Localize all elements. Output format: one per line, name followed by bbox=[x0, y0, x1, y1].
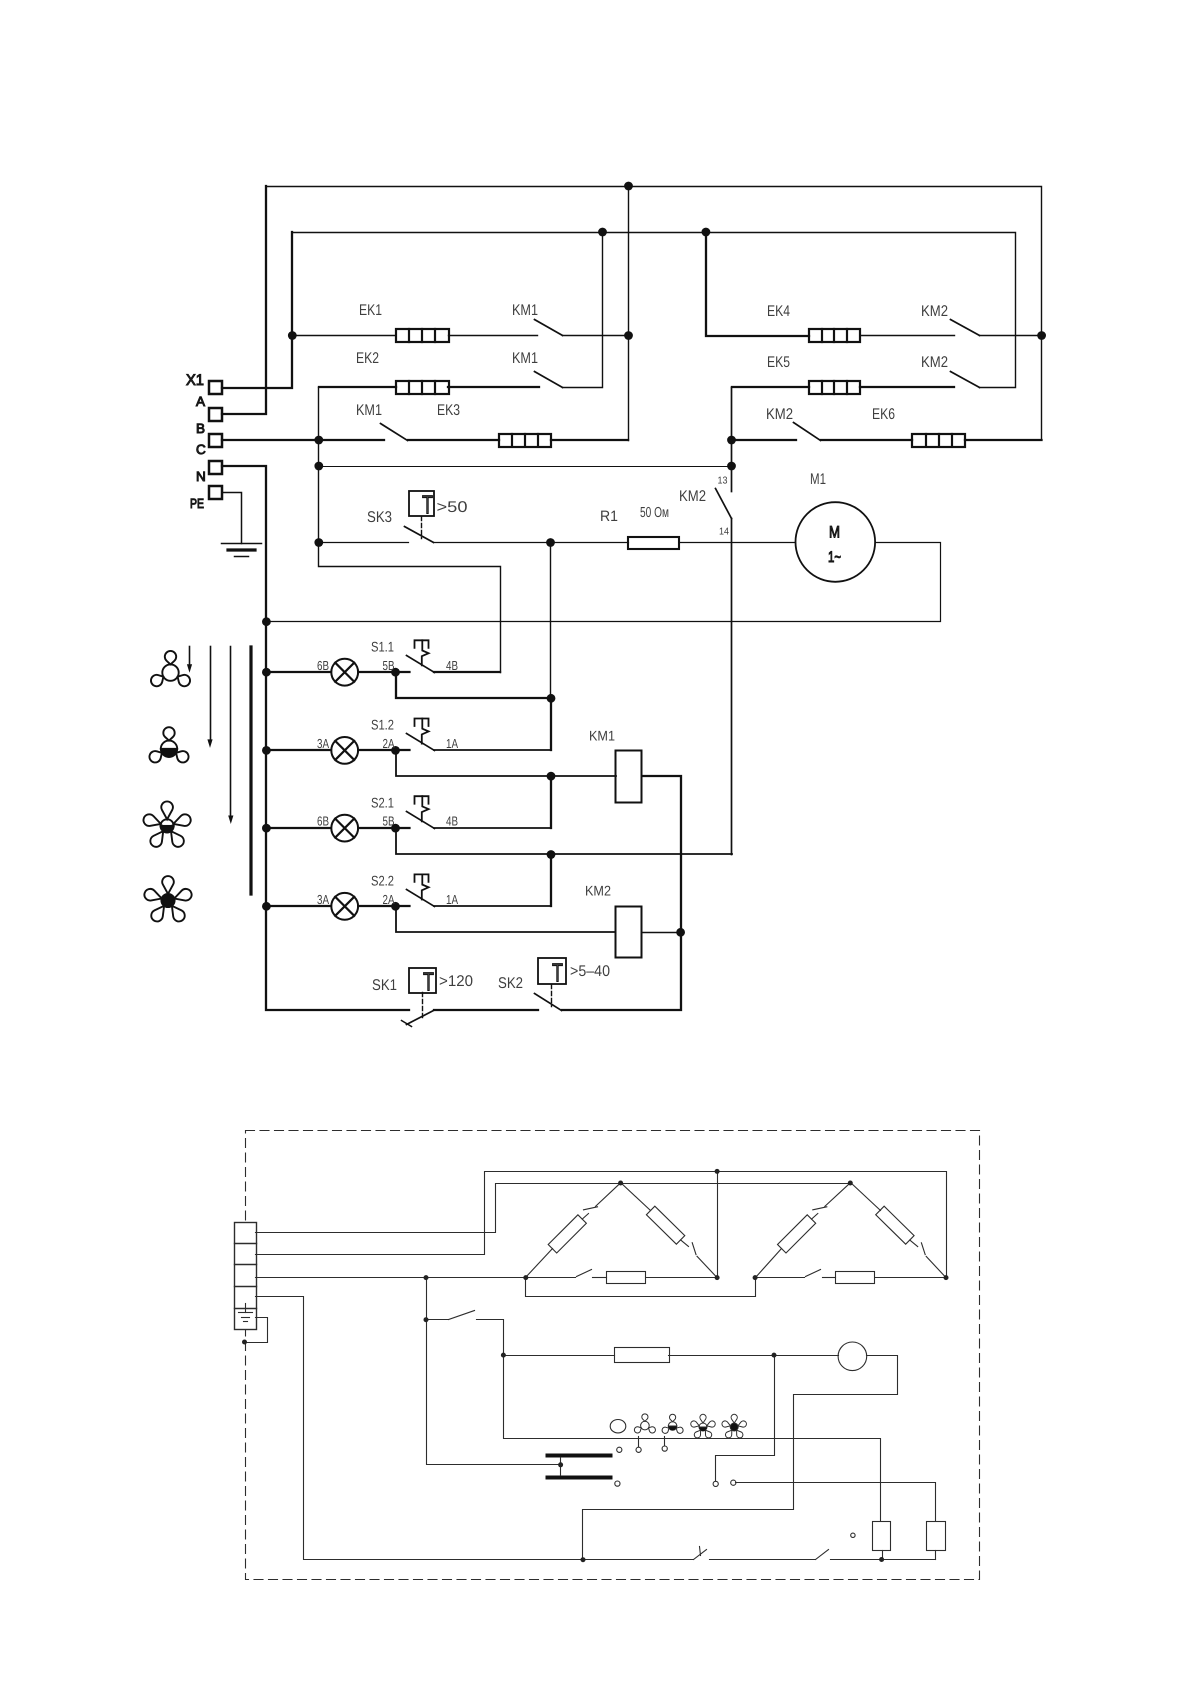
node coil KM2 right bbox=[676, 928, 685, 937]
wire S2.2 bypass to coil KM2 bbox=[396, 906, 615, 932]
node phase3 branch bbox=[424, 1275, 429, 1280]
junction dots bottom figure bbox=[242, 1169, 949, 1562]
svg-text:M1: M1 bbox=[810, 471, 826, 488]
heater EK1 bbox=[396, 329, 449, 342]
wire riser x551 to S1.2 bbox=[550, 698, 552, 750]
wire EK5 to KM2 bbox=[860, 386, 954, 388]
node N/motor return bbox=[262, 617, 271, 626]
svg-text:C: C bbox=[196, 442, 206, 457]
svg-text:13: 13 bbox=[718, 476, 728, 487]
wire S2.1 bypass bbox=[396, 828, 732, 854]
wire PE hook bbox=[245, 1318, 268, 1343]
svg-text:T: T bbox=[422, 490, 433, 520]
node SK3 left bbox=[314, 538, 323, 547]
svg-text:KM1: KM1 bbox=[512, 302, 538, 319]
svg-text:T: T bbox=[552, 958, 563, 988]
svg-text:1А: 1А bbox=[446, 736, 458, 751]
contact KM1 (C row) bbox=[381, 424, 408, 441]
thermal switch SK2 bbox=[535, 958, 567, 1011]
wire bottom row mid (bottom fig) bbox=[710, 1559, 816, 1561]
node C row bbox=[314, 436, 323, 445]
terminal X1:N bbox=[196, 461, 222, 484]
svg-text:SK1: SK1 bbox=[372, 977, 397, 994]
node bypass2 bbox=[547, 772, 556, 781]
svg-text:5В: 5В bbox=[383, 658, 395, 673]
wire B lead up bbox=[222, 186, 266, 414]
delta1 right side upper bbox=[621, 1183, 651, 1211]
svg-text:KM2: KM2 bbox=[766, 406, 793, 423]
pin switch 2 bbox=[851, 1533, 855, 1537]
switch bottom 2 bbox=[816, 1550, 829, 1560]
fan A (bottom fig, 3-blade open) bbox=[634, 1414, 655, 1433]
svg-text:SK2: SK2 bbox=[498, 975, 523, 992]
node delta1 apex bbox=[618, 1181, 623, 1186]
node bottom row motor return bbox=[581, 1557, 586, 1562]
wire R1 to motor bbox=[680, 542, 796, 544]
motor M1 bbox=[796, 502, 876, 582]
wire riser x551 to S2.2 bbox=[550, 854, 552, 906]
resistor vertical 2 bbox=[927, 1522, 946, 1560]
svg-text:EK1: EK1 bbox=[359, 302, 382, 319]
wire branch to pin A bbox=[716, 1356, 775, 1482]
delta2 right side upper bbox=[851, 1183, 881, 1211]
switch S2.2 bbox=[407, 874, 435, 906]
wire EK5 row left bbox=[732, 386, 809, 388]
svg-text:50 Ом: 50 Ом bbox=[640, 505, 669, 521]
pin lamp bbox=[617, 1447, 622, 1452]
wire EK1 to KM1 bbox=[449, 335, 538, 337]
wire EK4 feed riser bbox=[706, 232, 809, 336]
wire riser x551 upper bbox=[550, 543, 552, 699]
switch S1.2 bbox=[407, 719, 435, 751]
svg-text:4В: 4В bbox=[446, 658, 458, 673]
contact SK3 bbox=[405, 527, 434, 543]
wire motor return (bottom fig) bbox=[583, 1356, 898, 1560]
pin fan A bbox=[636, 1447, 641, 1452]
svg-text:KM1: KM1 bbox=[512, 350, 538, 367]
wire phase 2 bbox=[256, 1172, 947, 1278]
contact KM1 (EK2 row) bbox=[535, 372, 563, 388]
node N/HL2 bbox=[262, 746, 271, 755]
contact KM2 13-14 bbox=[716, 489, 732, 855]
node delta1 right corner bbox=[715, 1275, 720, 1280]
pin A bbox=[713, 1481, 718, 1486]
delta2 base + switch bbox=[756, 1270, 947, 1284]
svg-text:6В: 6В bbox=[317, 814, 329, 829]
node delta2 apex bbox=[848, 1181, 853, 1186]
fan icon 2 (3-blade, half hub) bbox=[149, 727, 188, 762]
svg-text:N: N bbox=[196, 469, 206, 484]
svg-text:B: B bbox=[196, 421, 205, 436]
svg-text:T: T bbox=[423, 967, 434, 997]
pin B bbox=[731, 1480, 736, 1485]
svg-text:A: A bbox=[196, 394, 205, 409]
svg-text:EK5: EK5 bbox=[767, 354, 790, 371]
wire PE lead bbox=[223, 493, 242, 544]
wire EK2 to KM1 bbox=[448, 386, 539, 388]
delta1 left side lower bbox=[526, 1249, 553, 1278]
wire top bus L1 bbox=[267, 187, 1042, 441]
wire S1.2 right bbox=[434, 749, 551, 751]
delta1 left side upper + switch bbox=[582, 1183, 620, 1219]
heater EK6 bbox=[912, 434, 965, 447]
wire EK1 row left bbox=[293, 335, 396, 337]
heater bar 2 bbox=[546, 1476, 613, 1480]
svg-text:>50: >50 bbox=[437, 499, 468, 516]
pin bar bbox=[615, 1481, 620, 1486]
contact KM2 (EK5 row) bbox=[951, 372, 980, 388]
wire S1.1 bypass bbox=[396, 672, 551, 698]
wire EK5/EK6 left riser bbox=[731, 388, 733, 492]
fan D (bottom fig, 5-blade full) bbox=[722, 1414, 746, 1438]
wire SK3 row left bbox=[319, 542, 409, 544]
svg-text:KM2: KM2 bbox=[585, 883, 611, 899]
heater EK5 bbox=[809, 381, 860, 394]
resistor vertical 1 bbox=[873, 1522, 891, 1560]
svg-text:S1.1: S1.1 bbox=[371, 639, 394, 655]
svg-text:KM1: KM1 bbox=[589, 728, 615, 744]
svg-text:EK4: EK4 bbox=[767, 303, 790, 320]
fan icon 3 (5-blade, half hub) bbox=[144, 801, 191, 846]
svg-text:2А: 2А bbox=[383, 736, 395, 751]
wire phase 3 bbox=[256, 1277, 526, 1279]
node HL3 right bbox=[391, 824, 400, 833]
delta2 left side upper + switch bbox=[812, 1183, 851, 1219]
wire EK4 to KM2 bbox=[861, 335, 955, 337]
svg-text:>5–40: >5–40 bbox=[570, 963, 610, 980]
resistor delta2 right bbox=[876, 1206, 914, 1244]
svg-text:EK2: EK2 bbox=[356, 350, 379, 367]
terminal X1:B bbox=[196, 408, 222, 436]
terminal X1:C bbox=[196, 434, 222, 457]
node delta2 left corner bbox=[753, 1275, 758, 1280]
node delta1 left corner bbox=[523, 1275, 528, 1280]
node N/HL3 bbox=[262, 824, 271, 833]
wire motor return loop bbox=[267, 543, 941, 622]
terminal block (bottom fig) bbox=[235, 1223, 257, 1330]
coil KM2 bbox=[616, 907, 642, 958]
resistor delta2 left bbox=[778, 1215, 816, 1253]
motor (bottom fig) bbox=[838, 1342, 867, 1371]
wire C row to EK3 bbox=[408, 439, 499, 441]
node EK1 left bbox=[288, 331, 297, 340]
node bypass3 bbox=[547, 850, 556, 859]
node EK6 left bbox=[727, 436, 736, 445]
coil KM1 bbox=[616, 751, 642, 803]
node EK4 right bbox=[1037, 331, 1046, 340]
wire coil KM2 right bbox=[642, 932, 681, 934]
ground (bottom fig) bbox=[239, 1304, 253, 1322]
node line1/riser bbox=[715, 1169, 720, 1174]
switch S2.1 bbox=[407, 796, 435, 828]
resistor delta1 left bbox=[548, 1215, 586, 1253]
fan icon 1 (3-blade, open hub) bbox=[151, 651, 190, 686]
speed bar bbox=[249, 647, 252, 894]
terminal X1:A bbox=[196, 381, 222, 409]
terminal block X1 label bbox=[186, 372, 204, 389]
wire S2.2 right bbox=[434, 905, 551, 907]
svg-text:EK6: EK6 bbox=[872, 406, 895, 423]
terminal X1:PE bbox=[190, 486, 222, 511]
lamp HL4 row bbox=[266, 893, 410, 920]
wire S1.2 bypass to coil KM1 bbox=[396, 750, 616, 776]
svg-text:KM2: KM2 bbox=[679, 488, 706, 505]
fan B (bottom fig, 3-blade half) bbox=[662, 1414, 683, 1433]
arrow 3 bbox=[228, 647, 233, 825]
resistor R1 bbox=[628, 537, 679, 549]
wire phase 1 bbox=[256, 1184, 851, 1233]
wire resistor to motor bbox=[669, 1355, 839, 1357]
wire bottom row right riser bbox=[562, 776, 681, 1010]
wire bottom row mid bbox=[434, 1009, 538, 1011]
wire EK6 to heater bbox=[821, 439, 912, 441]
wire EK2 row right riser bbox=[563, 233, 603, 388]
node row466 left bbox=[314, 462, 323, 471]
node N/HL1 bbox=[262, 668, 271, 677]
wire S1.1 right bbox=[434, 671, 500, 673]
contact KM2 (EK4 row) bbox=[951, 320, 980, 336]
wire bar stem bbox=[560, 1458, 562, 1476]
lamp HL1 row bbox=[266, 659, 410, 686]
svg-text:>120: >120 bbox=[439, 973, 473, 990]
switch S1.1 bbox=[407, 640, 435, 672]
wire S2.1 right bbox=[434, 827, 551, 829]
wire bus L2 bbox=[293, 233, 1016, 388]
node resistor row right bbox=[772, 1353, 777, 1358]
node EK1 right bbox=[624, 331, 633, 340]
wire N lead and bus bbox=[222, 466, 409, 1010]
wire EK4 row right bbox=[980, 335, 1042, 337]
arrow 1 bbox=[187, 647, 192, 673]
wire EK3 right bbox=[551, 439, 628, 441]
resistor (bottom fig R) bbox=[615, 1348, 670, 1363]
switch mid (bottom fig) bbox=[427, 1311, 881, 1522]
svg-text:1~: 1~ bbox=[828, 549, 841, 566]
thermostat SK3 box bbox=[409, 490, 434, 539]
node L2/EK2 riser bbox=[598, 228, 607, 237]
svg-text:KM1: KM1 bbox=[356, 402, 382, 419]
wire A lead up bbox=[222, 232, 292, 388]
svg-text:KM2: KM2 bbox=[921, 354, 948, 371]
wire bottom row right (bottom fig) bbox=[831, 1559, 936, 1561]
svg-text:1А: 1А bbox=[446, 892, 458, 907]
node bar stem bbox=[558, 1462, 563, 1467]
svg-text:3А: 3А bbox=[317, 736, 329, 751]
svg-text:2А: 2А bbox=[383, 892, 395, 907]
wire neutral to bottom row bbox=[256, 1297, 694, 1560]
node HL2 right bbox=[391, 746, 400, 755]
wire vertical C/SK3 riser bbox=[319, 388, 501, 673]
svg-text:14: 14 bbox=[719, 527, 729, 538]
lamp ellipse (bottom fig) bbox=[610, 1420, 626, 1433]
delta2 right side lower + switch bbox=[910, 1240, 946, 1278]
node HL1 right bbox=[391, 668, 400, 677]
contact KM1 (EK1 row) bbox=[535, 320, 563, 336]
arrow 2 bbox=[207, 647, 212, 748]
wire row 466 bbox=[319, 466, 732, 468]
node bottom row resistor1 bbox=[879, 1557, 884, 1562]
wire riser to delta1 right bbox=[717, 1172, 719, 1278]
svg-text:M: M bbox=[829, 524, 840, 542]
delta1 right side lower + switch bbox=[681, 1240, 718, 1278]
svg-text:6В: 6В bbox=[317, 658, 329, 673]
wire EK6 row left bbox=[732, 439, 796, 441]
junction dots top schematic bbox=[262, 182, 1046, 937]
heater EK3 bbox=[499, 434, 551, 447]
enclosure dashed border bbox=[246, 1131, 980, 1580]
contact KM2 (EK6 row) bbox=[794, 423, 821, 441]
node switch mid bbox=[424, 1317, 429, 1322]
node HL4 right bbox=[391, 902, 400, 911]
node resistor row left bbox=[501, 1353, 506, 1358]
svg-text:EK3: EK3 bbox=[437, 402, 460, 419]
wire delta feed drop bbox=[427, 1278, 561, 1465]
fan C (bottom fig, 5-blade half) bbox=[691, 1414, 715, 1438]
svg-text:3А: 3А bbox=[317, 892, 329, 907]
wire riser x551 to S2.1 bbox=[550, 776, 552, 828]
svg-text:S2.1: S2.1 bbox=[371, 795, 394, 811]
svg-text:X1: X1 bbox=[186, 372, 204, 389]
node L2/EK4 riser bbox=[702, 228, 711, 237]
svg-text:5В: 5В bbox=[383, 814, 395, 829]
ground bbox=[222, 544, 262, 557]
node L1/EK1 riser bbox=[624, 182, 633, 191]
wire under-loop delta feed bbox=[526, 1278, 756, 1297]
fan icon 4 (5-blade, full hub) bbox=[144, 876, 191, 921]
svg-text:4В: 4В bbox=[446, 814, 458, 829]
svg-text:S1.2: S1.2 bbox=[371, 717, 394, 733]
delta2 left side lower bbox=[756, 1249, 782, 1278]
node bypass1 bbox=[547, 694, 556, 703]
svg-text:S2.2: S2.2 bbox=[371, 873, 394, 889]
svg-text:SK3: SK3 bbox=[367, 509, 392, 526]
wire EK2 row left bbox=[319, 386, 396, 388]
node row466 right bbox=[727, 462, 736, 471]
node PE border bbox=[242, 1340, 247, 1345]
wire vertical EK1/EK3 right riser bbox=[628, 187, 630, 441]
lamp HL2 row bbox=[266, 737, 410, 764]
svg-text:R1: R1 bbox=[600, 508, 618, 525]
svg-text:KM2: KM2 bbox=[921, 303, 948, 320]
wire pin B to resistor2 bbox=[736, 1483, 936, 1522]
heater bar 1 bbox=[546, 1454, 613, 1458]
wire EK1 row right bbox=[563, 335, 629, 337]
node delta2 right corner bbox=[944, 1275, 949, 1280]
node N/HL4 bbox=[262, 902, 271, 911]
node SK3/x551 bbox=[546, 538, 555, 547]
pin fan B bbox=[662, 1446, 667, 1451]
wire C lead bbox=[222, 439, 384, 441]
switch bottom 1 bbox=[694, 1547, 707, 1560]
thermal switch SK1 bbox=[402, 967, 437, 1027]
wire SK3 to R1 bbox=[434, 542, 629, 544]
resistor delta1 right bbox=[646, 1206, 684, 1244]
wire resistor row bbox=[504, 1355, 615, 1357]
heater EK4 bbox=[809, 329, 860, 342]
svg-text:PE: PE bbox=[190, 496, 204, 511]
heater EK2 bbox=[396, 381, 449, 394]
delta1 base + switch bbox=[526, 1270, 718, 1284]
lamp HL3 row bbox=[266, 815, 410, 842]
